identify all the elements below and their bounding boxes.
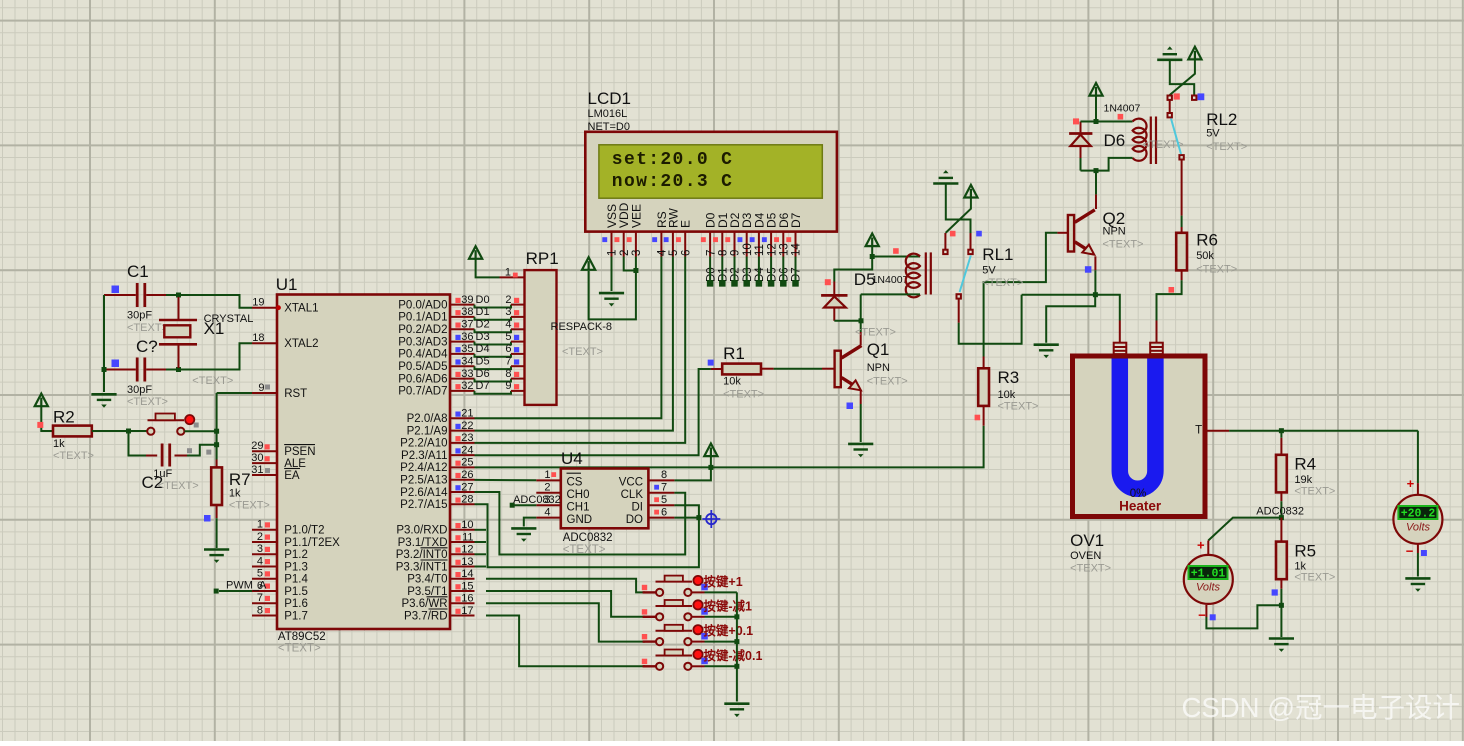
LCD1 pin 11 D4	[750, 212, 767, 256]
U1 pin 2 P1.1/T2EX	[252, 541, 277, 543]
wire button 2 right to common rail	[705, 616, 737, 618]
svg-text:−: −	[1406, 544, 1414, 559]
resistor R4 body	[1276, 455, 1287, 493]
svg-text:30pF: 30pF	[127, 384, 152, 396]
C1 state square (blue)	[112, 286, 120, 294]
U4 pin1 red square	[551, 472, 556, 477]
wire C? right to X1 bottom node	[147, 369, 179, 371]
svg-text:set:20.0 C: set:20.0 C	[612, 150, 734, 170]
svg-text:7: 7	[661, 481, 667, 493]
wire D5 net U1 to RP1	[475, 366, 512, 369]
wire node B to XTAL2 pin 18	[179, 343, 253, 369]
heater element (blue U)	[1120, 359, 1156, 489]
svg-text:5: 5	[505, 331, 511, 343]
svg-text:24: 24	[461, 444, 473, 456]
svg-text:Volts: Volts	[1406, 522, 1431, 534]
svg-text:P1.3: P1.3	[284, 561, 308, 573]
svg-text:C1: C1	[127, 262, 149, 281]
svg-text:8: 8	[257, 604, 263, 616]
svg-text:<TEXT>: <TEXT>	[127, 396, 168, 408]
svg-text:P2.5/A13: P2.5/A13	[400, 475, 447, 487]
svg-text:R1: R1	[723, 344, 745, 363]
svg-text:P0.7/AD7: P0.7/AD7	[398, 386, 447, 398]
svg-text:RESPACK-8: RESPACK-8	[551, 321, 613, 333]
node VCC/pin25 crossing junction	[708, 465, 713, 470]
svg-text:T: T	[1195, 425, 1202, 437]
wire LCD D1 down	[721, 257, 723, 284]
wire D5 cathode to VCC node	[834, 258, 872, 282]
wire button 4 right to common rail	[705, 665, 737, 667]
transistor Q1 NPN	[835, 346, 862, 391]
svg-text:X1: X1	[204, 319, 225, 338]
svg-text:D1: D1	[718, 267, 730, 282]
svg-text:9: 9	[258, 382, 264, 394]
oven OV1 body	[1073, 356, 1206, 517]
U1 pin 14 P3.4/T0	[450, 578, 475, 580]
svg-text:D3: D3	[742, 267, 754, 282]
power VCC arrow at RL2 coil	[1089, 83, 1102, 96]
svg-text:U4: U4	[561, 449, 583, 468]
svg-text:8: 8	[661, 469, 667, 481]
node D4 wire end	[756, 280, 763, 287]
wire U1 pin25 long net to R3 bottom	[475, 426, 984, 468]
svg-text:1uF: 1uF	[153, 468, 172, 480]
resistor R2	[53, 426, 92, 437]
U1 pin 34 P0.5/AD5	[450, 365, 475, 367]
svg-text:10k: 10k	[998, 389, 1016, 401]
svg-text:<TEXT>: <TEXT>	[127, 322, 168, 334]
svg-text:R2: R2	[53, 408, 75, 427]
U4 pin 8 VCC	[648, 479, 674, 481]
resistor R5 body	[1276, 542, 1287, 580]
svg-text:D4: D4	[754, 267, 766, 282]
power VCC arrow at RL1 switch	[964, 185, 977, 198]
LCD1 pin 2 VDD	[615, 202, 632, 256]
svg-text:P2.3/A11: P2.3/A11	[401, 450, 447, 462]
RL1 red square	[950, 231, 956, 237]
svg-text:D5: D5	[766, 267, 778, 282]
svg-text:5: 5	[661, 494, 667, 506]
svg-text:29: 29	[251, 440, 263, 452]
svg-text:P2.4/A12: P2.4/A12	[400, 462, 447, 474]
svg-text:18: 18	[252, 332, 264, 344]
svg-text:D7: D7	[789, 212, 803, 228]
wire reset node down to capacitor C2	[129, 431, 147, 456]
U1 pin 33 P0.6/AD6	[450, 378, 475, 380]
svg-text:<TEXT>: <TEXT>	[53, 450, 94, 462]
button 4 red square	[642, 659, 647, 664]
svg-text:VEE: VEE	[629, 204, 643, 228]
svg-text:12: 12	[766, 243, 778, 256]
wire node A to XTAL1 pin 19	[179, 295, 253, 308]
svg-text:5: 5	[257, 568, 263, 580]
ground LCD VSS	[599, 293, 624, 306]
svg-text:+1.01: +1.01	[1191, 568, 1226, 581]
svg-text:P0.1/AD1: P0.1/AD1	[398, 312, 447, 324]
R6 top lead	[1181, 227, 1183, 233]
resistor R3 body	[978, 368, 989, 406]
wire button 1 right to common rail	[705, 591, 737, 593]
svg-text:14: 14	[461, 568, 473, 580]
node PWM_A wire end	[214, 589, 219, 594]
wire stub P3.0	[475, 529, 487, 531]
wire left rail C1/C? to ground	[103, 295, 105, 392]
svg-text:RST: RST	[284, 388, 307, 400]
wire node to RL2 coil top	[1096, 121, 1133, 123]
node R4/R5 ADC0832 junction	[1279, 515, 1284, 520]
U1 pin 29 PSEN	[252, 450, 277, 452]
svg-text:U1: U1	[276, 275, 298, 294]
node C2/rail junction	[214, 442, 219, 447]
svg-text:OV1: OV1	[1070, 531, 1104, 550]
svg-text:1: 1	[544, 469, 550, 481]
U4 pin 6 DO	[648, 517, 674, 519]
relay RL1 core	[926, 252, 931, 294]
power VCC arrow at LCD	[582, 257, 595, 270]
wire U1 pin28 to U4 DI/DO	[475, 504, 699, 567]
svg-text:39: 39	[461, 294, 473, 306]
svg-text:25: 25	[461, 457, 473, 469]
U4 pin 4 GND	[536, 517, 561, 519]
svg-text:P2.0/A8: P2.0/A8	[407, 413, 448, 425]
wire T line down to voltmeter	[1417, 431, 1419, 483]
svg-text:RP1: RP1	[526, 249, 559, 268]
U1 pin 17 P3.7/RD	[450, 615, 475, 617]
C? state square (blue)	[112, 360, 120, 368]
diode D6 1N4007	[1069, 122, 1092, 159]
LCD1 LM016L display body	[585, 132, 837, 232]
power VCC arrow at RP1	[469, 246, 482, 259]
svg-text:P3.6/WR: P3.6/WR	[401, 598, 447, 610]
U1 pin 11 P3.1/TXD	[450, 541, 475, 543]
svg-text:XTAL2: XTAL2	[284, 338, 318, 350]
svg-text:+: +	[1407, 476, 1415, 491]
svg-text:P0.4/AD4: P0.4/AD4	[398, 349, 448, 361]
svg-text:4: 4	[544, 506, 550, 518]
svg-text:12: 12	[461, 544, 473, 556]
node D2 wire end	[731, 280, 738, 287]
R1 left lead	[711, 368, 722, 370]
wire Q1 emitter to ground	[860, 390, 862, 404]
svg-text:CSDN @冠一电子设计: CSDN @冠一电子设计	[1182, 692, 1460, 723]
LCD1 pin 4 RS	[652, 211, 669, 256]
ground RL2 throw (inverted)	[1157, 46, 1182, 59]
resistor pack RP1 RESPACK-8 body	[525, 270, 557, 405]
VM1 blue square	[1210, 614, 1216, 620]
LCD1 pin 3 VEE	[627, 204, 644, 257]
svg-text:17: 17	[461, 605, 473, 617]
wire VCC arrow stub	[871, 246, 873, 256]
svg-text:EA: EA	[284, 470, 300, 482]
node Q1 collector / D5 anode	[859, 318, 864, 323]
svg-text:<TEXT>: <TEXT>	[867, 376, 908, 388]
ground Q1	[848, 444, 873, 457]
svg-text:6: 6	[680, 250, 692, 256]
svg-text:21: 21	[461, 408, 473, 420]
wire D2 net U1 to RP1	[475, 329, 512, 332]
svg-text:<TEXT>: <TEXT>	[1206, 141, 1247, 153]
relay RL1 coil	[906, 254, 920, 298]
svg-text:D6: D6	[779, 267, 791, 282]
svg-text:P1.2: P1.2	[284, 549, 308, 561]
svg-text:CLK: CLK	[621, 489, 644, 501]
wire LCD RS to U1 pin21	[475, 257, 662, 419]
wire VEE down/left/up to VCC arrow	[589, 257, 636, 320]
reset button gray square	[194, 423, 199, 428]
LCD1 pin 14 D7	[786, 212, 803, 256]
svg-text:<TEXT>: <TEXT>	[278, 643, 321, 655]
LCD screen	[599, 145, 822, 198]
svg-text:D0: D0	[476, 294, 490, 306]
RP1 pin 2	[511, 304, 525, 306]
wire R3 bottom lead	[983, 405, 985, 425]
svg-text:按键+0.1: 按键+0.1	[703, 623, 753, 638]
svg-text:13: 13	[779, 243, 791, 256]
node R5 bottom junction	[1279, 603, 1284, 608]
node B: C?/X1/XTAL2 junction	[176, 367, 181, 372]
svg-text:DI: DI	[632, 501, 644, 513]
button 3 blue square	[701, 633, 708, 640]
wire junction to voltmeter +	[1208, 518, 1281, 541]
crystal X1	[159, 297, 197, 368]
svg-text:<TEXT>: <TEXT>	[723, 389, 764, 401]
ground left rail	[91, 394, 116, 407]
svg-text:XTAL1: XTAL1	[284, 303, 318, 315]
svg-text:2: 2	[619, 250, 631, 256]
U4 pin 5 DI	[648, 504, 674, 506]
svg-text:33: 33	[461, 368, 473, 380]
svg-text:Heater: Heater	[1119, 499, 1162, 514]
U4 pin 2 CH0	[536, 492, 561, 494]
svg-text:P3.5/T1: P3.5/T1	[407, 586, 447, 598]
wire R6 bottom to heater right terminal	[1181, 270, 1183, 280]
wire D5 anode to collector node	[834, 320, 861, 322]
wire VM2 top lead	[1417, 483, 1419, 495]
Q2 state square (blue)	[1085, 266, 1092, 273]
ground buttons	[724, 704, 749, 717]
U1 pin 19 XTAL1	[252, 305, 281, 310]
svg-text:AT89C52: AT89C52	[278, 631, 326, 643]
U1 pin 38 P0.1/AD1	[450, 316, 475, 318]
wire VCC node to RL1 coil top	[872, 256, 920, 258]
op-amp U1 AT89C52 microcontroller body	[277, 295, 450, 630]
U1 pin 8 P1.7	[252, 615, 277, 617]
R6 state square	[1169, 287, 1175, 293]
node T/R4 junction	[1279, 428, 1284, 433]
svg-text:10: 10	[461, 519, 473, 531]
svg-text:P3.0/RXD: P3.0/RXD	[396, 525, 447, 537]
svg-text:PSEN: PSEN	[284, 446, 315, 458]
svg-text:P0.5/AD5: P0.5/AD5	[398, 361, 447, 373]
capacitor C?	[104, 358, 166, 382]
diode D5 1N4007	[821, 282, 847, 321]
wire LCD D6 down	[782, 257, 784, 284]
wire VCC arrow to U4 pin8	[674, 456, 711, 480]
svg-text:D0: D0	[705, 267, 717, 282]
svg-text:38: 38	[461, 306, 473, 318]
node D7 wire end	[792, 280, 799, 287]
wire LCD VDD jog	[624, 257, 636, 271]
svg-text:4: 4	[505, 319, 511, 331]
svg-text:30pF: 30pF	[127, 310, 152, 322]
svg-text:<TEXT>: <TEXT>	[1103, 239, 1144, 251]
svg-text:P1.5: P1.5	[284, 586, 308, 598]
svg-text:<TEXT>: <TEXT>	[998, 401, 1039, 413]
svg-text:P2.7/A15: P2.7/A15	[400, 499, 447, 511]
svg-text:30: 30	[251, 452, 263, 464]
svg-text:1k: 1k	[229, 488, 241, 500]
svg-text:D7: D7	[791, 267, 803, 282]
wire arrow stub to node	[1095, 96, 1097, 122]
svg-text:P1.7: P1.7	[284, 610, 308, 622]
svg-text:D5: D5	[476, 356, 490, 368]
svg-text:<TEXT>: <TEXT>	[562, 346, 603, 358]
ground R5	[1269, 639, 1294, 652]
svg-text:R5: R5	[1294, 542, 1316, 561]
wire junction to ground	[1280, 605, 1282, 637]
svg-text:D4: D4	[476, 343, 490, 355]
node D3 wire end	[743, 280, 750, 287]
svg-text:P1.0/T2: P1.0/T2	[284, 525, 324, 537]
svg-text:31: 31	[251, 464, 263, 476]
U1 pin 36 P0.3/AD3	[450, 341, 475, 343]
wire node to button RESET	[129, 430, 148, 432]
D5 state square	[825, 279, 831, 285]
svg-text:10k: 10k	[723, 376, 741, 388]
node D6 anode / Q2 collector	[1094, 168, 1099, 173]
svg-text:7: 7	[705, 250, 717, 256]
svg-text:7: 7	[257, 592, 263, 604]
push button RESET	[147, 414, 194, 435]
U1 pin 15 P3.5/T1	[450, 590, 475, 592]
U1 pin 4 P1.3	[252, 566, 277, 568]
svg-text:按键+1: 按键+1	[703, 574, 742, 589]
svg-text:11: 11	[462, 531, 473, 543]
heater terminal right	[1150, 343, 1163, 354]
svg-text:5V: 5V	[1206, 128, 1220, 140]
wire C2 right to rail	[175, 455, 188, 457]
svg-text:P3.7/RD: P3.7/RD	[404, 610, 447, 622]
wire LCD D0 down	[709, 257, 711, 284]
D6 state square	[1073, 118, 1079, 124]
wire button right to RST rail	[184, 430, 216, 432]
svg-text:28: 28	[461, 494, 473, 506]
wire heater-left / Q2 emitter line	[1022, 295, 1120, 321]
push button 按键-减0.1	[643, 650, 705, 670]
node D0 wire end	[707, 280, 714, 287]
svg-text:37: 37	[461, 319, 473, 331]
wire stub P3.3	[475, 566, 487, 568]
Q2 base lead	[1057, 232, 1068, 234]
ground mid (Q2 area)	[1034, 345, 1059, 358]
svg-text:23: 23	[461, 432, 473, 444]
wire D4 net U1 to RP1	[475, 354, 512, 357]
svg-text:19: 19	[252, 297, 264, 309]
svg-text:<TEXT>: <TEXT>	[1294, 486, 1335, 498]
U4 pin7 blue square	[654, 485, 659, 490]
wire R3 top to Q2 base path	[983, 357, 985, 369]
LCD1 pin 5 RW	[664, 208, 681, 257]
svg-text:1N4007: 1N4007	[1104, 103, 1141, 115]
wire Q1 collector	[860, 332, 862, 345]
U1 pin 28 P2.7/A15	[450, 503, 475, 505]
svg-text:1: 1	[257, 519, 263, 531]
LCD1 pin 10 D3	[738, 212, 755, 256]
svg-text:8: 8	[718, 250, 730, 256]
wire LCD E to U1 pin23	[475, 257, 686, 443]
node VCC/D6/coil junction	[1094, 119, 1099, 124]
svg-text:NPN: NPN	[1103, 226, 1126, 238]
transistor Q2 NPN	[1068, 210, 1095, 255]
U1 pin 26 P2.5/A13	[450, 479, 475, 481]
svg-text:P0.2/AD2: P0.2/AD2	[398, 324, 447, 336]
wire R5 bottom	[1280, 579, 1282, 589]
svg-text:P0.3/AD3: P0.3/AD3	[398, 336, 447, 348]
R2 state square	[37, 422, 43, 428]
U4 pin6 red square	[654, 510, 659, 515]
LCD1 pin 13 D6	[774, 212, 791, 256]
wire VM2 minus to ground	[1417, 544, 1419, 553]
svg-text:36: 36	[461, 331, 473, 343]
button 1 blue square	[701, 584, 708, 591]
R5 top lead	[1280, 518, 1282, 542]
svg-text:<TEXT>: <TEXT>	[158, 480, 199, 492]
wire LCD RW to U1 pin22	[475, 257, 673, 431]
wire VCC arrow to R2	[41, 406, 53, 431]
wire U1 pin15 to button 2	[486, 591, 645, 617]
svg-text:9: 9	[730, 250, 742, 256]
svg-text:7: 7	[505, 356, 511, 368]
resistor R1	[722, 364, 761, 375]
pin29 red square	[265, 444, 270, 449]
svg-text:R6: R6	[1196, 231, 1218, 250]
U1 pin 25 P2.4/A12	[450, 466, 475, 468]
svg-text:15: 15	[461, 580, 473, 592]
wire stub P3.1	[475, 541, 487, 543]
RP1 pin 5	[511, 341, 525, 343]
svg-text:NET=D0: NET=D0	[588, 121, 631, 133]
svg-text:Volts: Volts	[1196, 582, 1221, 594]
wire U1 pin14 to button 1	[486, 579, 645, 593]
svg-text:19k: 19k	[1294, 474, 1312, 486]
svg-text:<TEXT>: <TEXT>	[192, 375, 233, 387]
svg-text:LCD1: LCD1	[588, 89, 631, 108]
svg-text:13: 13	[461, 556, 473, 568]
U1 pin 13 P3.3/INT1	[450, 566, 475, 568]
svg-text:P2.1/A9: P2.1/A9	[407, 425, 448, 437]
wire LCD D3 down	[746, 257, 748, 284]
svg-text:D3: D3	[476, 331, 490, 343]
ground U4	[511, 528, 536, 541]
RP1 pin 9	[511, 390, 525, 392]
wire Q2 emitter down	[1094, 256, 1096, 270]
RL2 blue square	[1198, 93, 1205, 100]
wire RL2 coil bottom	[1096, 158, 1133, 171]
voltmeter VM2 +20.2	[1393, 495, 1442, 544]
svg-text:8: 8	[505, 368, 511, 380]
relay RL1 switch	[943, 233, 973, 299]
svg-text:D1: D1	[476, 306, 490, 318]
svg-text:−: −	[1198, 608, 1206, 623]
svg-text:C?: C?	[136, 337, 158, 356]
RP1 pin 4	[511, 328, 525, 330]
wire R2 right to reset node	[92, 430, 129, 432]
svg-text:PWM_A: PWM_A	[226, 580, 267, 592]
R1 state square (blue)	[708, 360, 714, 366]
pin9 gray square	[265, 385, 270, 390]
R5 state square (blue)	[1272, 589, 1278, 595]
svg-text:4: 4	[657, 249, 669, 256]
